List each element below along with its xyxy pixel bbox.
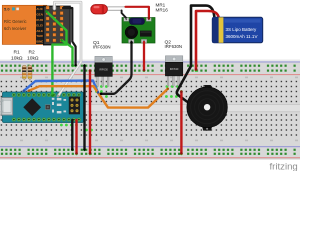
wire: white receiver->nano (54, 2, 81, 96)
bottom power rail lines (0, 146, 300, 147)
wire: battery black (177, 6, 215, 102)
wire: black nano->bottom rail (71, 120, 73, 150)
svg-text:IRF630N: IRF630N (93, 45, 111, 50)
wire: red nano->bottom rail (75, 120, 77, 154)
microphone on module (125, 26, 138, 39)
label R1 (11, 50, 39, 62)
center groove (0, 104, 300, 112)
buzzer tabs (202, 85, 212, 131)
svg-text:R1: R1 (14, 50, 21, 56)
wire: battery red (196, 11, 219, 70)
svg-text:3600mAh 11.1V: 3600mAh 11.1V (226, 34, 258, 39)
svg-text:MR16: MR16 (156, 8, 169, 13)
svg-text:IRF630: IRF630 (170, 67, 179, 71)
svg-text:AILE: AILE (36, 29, 43, 33)
wire end caps (23, 10, 198, 154)
svg-text:R2: R2 (29, 50, 36, 56)
resistor R1 10k (22, 65, 26, 81)
svg-text:10kΩ: 10kΩ (11, 55, 23, 61)
capacitor on module (130, 18, 145, 25)
wire: red buzzer->bottom rail (180, 92, 182, 154)
svg-text:MR1: MR1 (156, 2, 166, 7)
wire: green receiver->rail (62, 40, 73, 65)
wire: blue nano->Q1 (24, 81, 98, 93)
battery BAT1 3S Lipo (212, 17, 262, 43)
label MR1 MR16 (156, 2, 169, 12)
svg-text:ELEV: ELEV (36, 23, 44, 27)
label Q1 (93, 39, 182, 49)
receiver pin-label strip (36, 6, 46, 44)
wire: green receiver->nano (47, 12, 67, 96)
svg-text:10kΩ: 10kΩ (27, 55, 39, 61)
svg-text:IRF630: IRF630 (99, 68, 108, 72)
wire: black LED->module (122, 10, 126, 17)
wire: red rail->rail right of nano (89, 71, 91, 154)
svg-text:3S Lipo Battery: 3S Lipo Battery (226, 27, 258, 32)
wire: black receiver->rail (63, 8, 76, 65)
nano MCU diamond (23, 98, 41, 116)
LED MR LED1 leads (104, 7, 126, 11)
wire: red LED->module (126, 7, 149, 19)
power rail holes (1, 65, 296, 155)
svg-text:R/C Generic: R/C Generic (4, 19, 27, 24)
buzzer body (187, 87, 228, 128)
nano USB connector (1, 98, 12, 115)
svg-text:fritzing: fritzing (270, 161, 298, 171)
nano small parts (52, 98, 66, 114)
module MR1 MR16 board (122, 18, 155, 44)
Arduino Nano U1 board (1, 92, 83, 123)
LED body (91, 5, 108, 14)
connected hole glows (23, 64, 198, 155)
nano reset button (45, 105, 50, 110)
transistor Q1 IRF630N (95, 56, 112, 86)
wire: red module->rail (143, 42, 145, 70)
transistor Q2 IRF630N (165, 56, 182, 86)
wire: black module->row (101, 42, 132, 94)
top power rail lines (0, 61, 300, 62)
R/C receiver RX1 body (2, 5, 47, 44)
nano ICSP header (69, 97, 80, 115)
wire: black rail->rail right of nano (83, 65, 85, 149)
svg-text:6ch receiver: 6ch receiver (4, 26, 27, 31)
svg-text:5.0: 5.0 (4, 7, 10, 12)
receiver header (44, 6, 71, 45)
svg-text:IRF630N: IRF630N (165, 44, 183, 49)
resistor R2 10k (28, 65, 32, 81)
svg-text:BIND: BIND (36, 40, 43, 44)
wire: orange nano->Q2 (29, 86, 168, 107)
IC on module (140, 31, 152, 37)
main breadboard holes (1, 81, 297, 136)
faint column marks (20, 77, 298, 142)
breadboard body (0, 60, 300, 160)
